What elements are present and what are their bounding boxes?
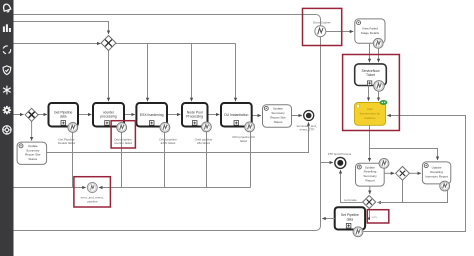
task T10 User Intervention for Failures (yellow) — [354, 103, 385, 126]
wire: T11 to G3 — [384, 172, 394, 174]
svg-text:terminate: terminate — [344, 198, 357, 202]
label: Orbit pipeline vcenter failed — [114, 138, 132, 146]
sidebar icon: circled gear — [3, 126, 11, 134]
task T8 View Failed Stage Details — [355, 19, 385, 43]
label: Orbit pipeline ESXi failed — [159, 138, 177, 146]
boundary event B5 — [245, 122, 255, 132]
boundary event B11 — [353, 227, 363, 237]
sidebar icon: gear — [3, 106, 11, 114]
svg-text:Reselling: Reselling — [364, 170, 377, 174]
task T11 Update Reselling Summary Report — [356, 163, 385, 186]
annotation box RB3 around E1 — [74, 177, 111, 207]
svg-text:Update: Update — [365, 165, 375, 169]
label: Orbit pipeline k8s failed — [195, 138, 213, 146]
boundary event B4 — [202, 122, 212, 132]
task T9 ServiceNow Ticket — [355, 64, 387, 86]
annotation box RB4 around T9 and T10 — [343, 55, 400, 131]
wire: B12 drop to G4 rail — [377, 190, 447, 202]
svg-text:processing: processing — [100, 115, 117, 119]
sidebar icon: bell — [2, 3, 10, 12]
svg-text:event_ZTP: event_ZTP — [300, 128, 315, 132]
sidebar icon: cycle arrows — [3, 46, 10, 54]
svg-text:Ticket: Ticket — [366, 73, 375, 77]
wire: branch to T12 — [370, 149, 438, 161]
task T2 vcenter processing — [93, 103, 124, 127]
svg-text:pipeline: pipeline — [87, 199, 98, 203]
main subprocess container — [0, 15, 321, 231]
wire: B2 drop to error rail — [121, 132, 123, 187]
svg-text:Summary: Summary — [271, 111, 285, 115]
wire: T4 to T5 — [208, 114, 220, 116]
annotation box RB1 around Error Cacher — [303, 8, 342, 45]
task T13 Set Pipeline data — [335, 207, 365, 229]
svg-text:Inventory Report: Inventory Report — [425, 174, 448, 178]
boundary event Bt11 on T11 top-right corner — [379, 159, 389, 169]
terminate end event terminate_and_event_ZTP — [304, 111, 314, 121]
svg-text:Report: Report — [365, 179, 374, 183]
svg-text:failed: failed — [240, 139, 248, 143]
task T6 Update Summary Report Site Status (right) — [263, 105, 292, 128]
svg-text:Intervention for: Intervention for — [360, 112, 381, 116]
svg-text:data: data — [60, 115, 67, 119]
svg-text:Summary: Summary — [26, 148, 40, 152]
wire: B5 drop to error rail — [250, 132, 252, 188]
wire: B4 drop to error rail — [206, 132, 208, 188]
wire: G2 to task T1 — [38, 114, 47, 116]
wire: T10 bottom to T11 — [369, 125, 371, 161]
annotation box RB2 around B2 label — [111, 121, 135, 148]
wire: T6 to terminate event — [292, 115, 302, 117]
sidebar — [0, 0, 14, 256]
wire: T9 bottom to T10 — [368, 86, 370, 101]
wire: left flow into gateway G1 — [13, 43, 100, 45]
boundary event B8 — [373, 38, 383, 48]
svg-text:ESXi hardening: ESXi hardening — [140, 113, 164, 117]
wire: EC to T8 — [326, 31, 353, 33]
boundary event B3 — [160, 123, 170, 133]
boundary event B12 — [440, 181, 450, 191]
svg-text:Update: Update — [432, 166, 442, 170]
task T12 Update Reselling Inventory Report — [422, 162, 450, 184]
wire: G1 right distribution rail — [116, 43, 236, 45]
label: error_and_event_pipeline — [81, 196, 105, 204]
svg-text:Report Site: Report Site — [25, 153, 41, 157]
wire: error rail into event E1 from right — [99, 187, 251, 189]
wire: T11 bottom to G4 — [369, 186, 371, 194]
task T4 Node Pool Processing — [182, 103, 208, 127]
label: terminate_and_event_ZTP — [297, 124, 318, 132]
wire: T2 to T3 — [124, 114, 135, 116]
sidebar icon: shield check — [3, 66, 11, 75]
svg-text:Error Cacher: Error Cacher — [313, 21, 330, 25]
boundary event EC Error Cacher on container edge — [315, 26, 326, 37]
wire: rail drop to task T5 — [235, 44, 237, 102]
wire: retry loop from B11 up into T10 right edge — [363, 116, 465, 232]
wire: G3 bottom to G4 — [377, 180, 402, 202]
sidebar icon: snowflake — [3, 86, 11, 95]
label: Get Pipeline Details failed — [58, 138, 76, 146]
wire: rail drop to task T3 — [147, 44, 149, 102]
end event ZTP End Process — [335, 157, 346, 168]
wire: B9 to T10 — [378, 91, 380, 101]
svg-text:ESXi failed: ESXi failed — [161, 141, 176, 145]
svg-text:Reselling: Reselling — [430, 170, 443, 174]
wire: T3 to T4 — [167, 114, 180, 116]
wire: B3 drop to error rail — [164, 132, 166, 187]
annotation box RB5 around retry label — [367, 210, 389, 223]
wire: G1 bottom to task T2 — [108, 51, 110, 102]
boundary event B2 — [117, 123, 127, 133]
task T1 Get Pipeline data — [49, 103, 79, 127]
badge: green counter on T10 — [380, 100, 388, 105]
boundary event B1 — [68, 123, 78, 133]
svg-text:Failures: Failures — [364, 116, 375, 120]
label: Orbit pipeline DU failed — [232, 135, 255, 143]
svg-text:k8s failed: k8s failed — [197, 141, 210, 145]
gateway G3 — [396, 166, 410, 180]
svg-text:Summary: Summary — [363, 174, 377, 178]
gateway G1 — [101, 36, 116, 51]
svg-text:Processing: Processing — [186, 115, 203, 119]
svg-text:Stage Details: Stage Details — [361, 31, 380, 35]
wire: T13 out to container — [322, 218, 334, 220]
wire: error rail into event E1 from left — [13, 187, 86, 189]
svg-text:Report Site: Report Site — [270, 115, 286, 119]
svg-text:User: User — [367, 107, 374, 111]
intermediate event E1 error_and_event_pipeline — [87, 183, 97, 193]
sidebar icon: bar chart — [3, 24, 11, 32]
wire: B1 drop to error rail — [72, 132, 74, 187]
wire: B8 to T9 — [378, 48, 380, 62]
boundary event B9 — [374, 81, 385, 92]
svg-text:DU Instantiation: DU Instantiation — [224, 113, 248, 117]
gateway G4 — [363, 196, 376, 209]
wire: T7 right across to terminate event bottom — [47, 122, 309, 152]
gateway G2 — [25, 108, 38, 121]
wire: T1 to T2 — [78, 114, 91, 116]
svg-text:Update: Update — [28, 144, 38, 148]
task T7 Update Summary Report Site Status (left) — [17, 142, 46, 164]
wire: G3 to T12 — [409, 172, 421, 174]
svg-text:ZTP End Process: ZTP End Process — [328, 152, 352, 156]
wire: G4 retry path into T13 — [367, 209, 370, 219]
wire: top flow into gateway G1 — [13, 22, 109, 34]
svg-text:Status: Status — [28, 157, 37, 161]
wire: container edge to ZTP End Process — [321, 162, 333, 164]
svg-text:Update: Update — [273, 107, 283, 111]
wire: T8 bottom to T9 — [369, 43, 371, 62]
svg-text:data: data — [347, 217, 354, 221]
wire: G4 terminate path up to ZTP End Process — [341, 170, 363, 202]
svg-text:retry: retry — [372, 215, 378, 219]
svg-text:View Failed: View Failed — [362, 27, 378, 31]
svg-text:Status: Status — [274, 120, 283, 124]
wire: G2 down to task T7 — [31, 121, 33, 140]
svg-text:Details failed: Details failed — [58, 141, 76, 145]
wire: left flow into gateway G2 — [13, 114, 24, 116]
task T3 ESXi hardening — [136, 103, 167, 127]
wire: rail drop to task T4 — [191, 44, 193, 102]
svg-text:vcenter failed: vcenter failed — [114, 141, 132, 145]
task T5 DU Instantiation — [221, 103, 252, 127]
wire: T5 to T6 — [252, 115, 261, 117]
